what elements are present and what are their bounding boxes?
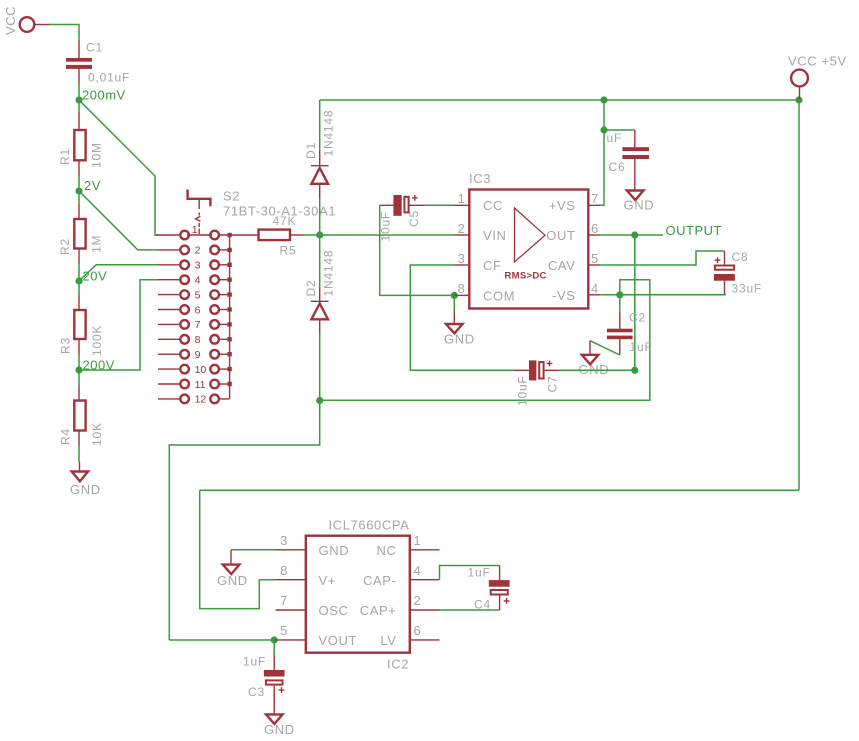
power symbol VCC +5V: [791, 70, 808, 99]
wire 2V net to switch pin 2: [79, 191, 158, 250]
svg-text:C8: C8: [732, 250, 749, 264]
svg-text:CAV: CAV: [548, 258, 576, 273]
svg-text:R1: R1: [58, 148, 72, 165]
label C2: [629, 310, 646, 324]
svg-text:VCC: VCC: [3, 6, 18, 35]
wire to C6: [604, 129, 635, 131]
wire: [319, 100, 321, 150]
pin 4 -VS: [552, 281, 600, 303]
svg-text:6: 6: [591, 221, 599, 236]
label 1M: [90, 235, 104, 253]
pin 3 CF: [455, 251, 502, 273]
label R5: [280, 244, 297, 258]
resistor R3: [74, 295, 85, 355]
svg-text:GND: GND: [579, 362, 610, 377]
wire -VS net: [600, 294, 726, 296]
rotary switch S2 pin row 6: [158, 304, 232, 316]
pin 1 CC: [455, 191, 503, 213]
wire R5 to VIN: [303, 234, 455, 236]
node 200V: [75, 358, 114, 374]
svg-text:OUT: OUT: [546, 228, 575, 243]
rotary switch S2 bus: [229, 235, 231, 399]
svg-text:C3: C3: [248, 685, 265, 699]
label IC2: [387, 657, 409, 672]
label VCC +5V: [788, 54, 847, 69]
IC U IC2 ICL7660CPA body: [306, 536, 410, 653]
svg-text:5: 5: [280, 623, 288, 638]
label R1: [58, 148, 72, 165]
wire VOUT junction to C3: [273, 640, 275, 655]
svg-text:1uF: 1uF: [630, 340, 653, 354]
svg-text:IC3: IC3: [469, 171, 491, 186]
diode D2: [311, 288, 329, 332]
wire: [78, 100, 80, 112]
ground: [579, 341, 610, 377]
wire 200mV net to switch pin 1: [79, 100, 158, 235]
pin 6 LV: [380, 623, 439, 648]
rotary switch S2 pin row 2: [158, 245, 232, 257]
capacitor C2: [607, 313, 633, 355]
node 20V: [75, 269, 107, 285]
wire: [78, 264, 80, 281]
node 2V: [75, 178, 101, 195]
svg-text:1N4148: 1N4148: [322, 250, 336, 297]
wire C7 to junction: [560, 369, 635, 371]
svg-text:C4: C4: [474, 598, 491, 612]
wire: [78, 355, 80, 370]
wire VOUT net: [169, 639, 274, 641]
wire VCC rail down: [798, 100, 800, 490]
ground: [264, 714, 295, 737]
label 1uF: [243, 655, 266, 669]
svg-text:2V: 2V: [84, 178, 101, 193]
svg-text:C2: C2: [629, 310, 646, 324]
svg-text:C7: C7: [546, 376, 560, 393]
svg-text:6: 6: [414, 623, 422, 638]
svg-text:20V: 20V: [83, 269, 108, 284]
svg-text:+VS: +VS: [549, 198, 576, 213]
wire OUTPUT junction down: [634, 235, 636, 370]
wire 20V net to switch pin 3: [79, 265, 158, 281]
label 47K: [273, 214, 297, 228]
pin 2 CAP+: [360, 593, 440, 618]
svg-text:ICL7660CPA: ICL7660CPA: [329, 518, 410, 533]
label R3: [59, 337, 73, 354]
node COM junction: [451, 292, 458, 299]
label IC3: [469, 171, 491, 186]
svg-text:10uF: 10uF: [515, 375, 529, 406]
svg-text:5: 5: [591, 251, 599, 266]
label 33uF: [732, 281, 763, 295]
capacitor C5: [380, 195, 426, 216]
svg-text:CC: CC: [483, 198, 503, 213]
ground: [217, 550, 248, 588]
pin 8 COM: [455, 281, 516, 303]
label 10uF: [515, 375, 529, 406]
diode D1: [311, 150, 329, 198]
pin 1 NC: [377, 533, 440, 558]
wire CAV net: [600, 251, 724, 265]
svg-text:7: 7: [195, 319, 201, 331]
svg-text:4: 4: [591, 281, 599, 296]
op-amp U IC3 RMS-DC converter body: [469, 190, 588, 309]
capacitor C7: [514, 360, 560, 380]
svg-text:200mV: 200mV: [82, 88, 126, 103]
svg-text:CAP-: CAP-: [363, 573, 396, 588]
wire -VS to VOUT routing: [169, 401, 319, 641]
capacitor C6: [622, 130, 649, 191]
label S2: [223, 189, 240, 204]
node 200mV: [75, 88, 125, 104]
svg-text:-VS: -VS: [552, 288, 575, 303]
wire top rail right: [604, 99, 799, 101]
svg-text:1: 1: [192, 224, 198, 236]
svg-text:C5: C5: [407, 210, 421, 227]
rotary switch S2 pin row 11: [158, 379, 232, 391]
capacitor C4: [489, 566, 510, 611]
svg-text:LV: LV: [380, 633, 396, 648]
svg-text:6: 6: [195, 304, 201, 316]
wire: [319, 332, 321, 401]
svg-text:0,01uF: 0,01uF: [88, 71, 130, 85]
wire CF net: [410, 265, 514, 370]
svg-text:NC: NC: [377, 543, 397, 558]
svg-text:8: 8: [458, 281, 466, 296]
rotary switch S2 arm: [188, 190, 211, 237]
wire: [319, 198, 321, 288]
svg-text:1N4148: 1N4148: [322, 110, 336, 157]
rotary switch S2 pin row 3: [158, 260, 232, 272]
label 10uF: [379, 211, 393, 242]
svg-text:3: 3: [280, 533, 288, 548]
wire: [600, 130, 604, 205]
svg-text:D1: D1: [304, 142, 318, 159]
label 1N4148: [322, 110, 336, 157]
svg-text:IC2: IC2: [387, 657, 409, 672]
svg-text:GND: GND: [319, 543, 350, 558]
label C5: [407, 210, 421, 227]
pin 4 CAP-: [363, 563, 439, 588]
svg-text:3: 3: [458, 251, 466, 266]
rotary switch S2 pin row 4: [158, 275, 232, 287]
rotary switch S2 pin row 1: [156, 231, 232, 240]
pin 5 VOUT: [274, 623, 357, 648]
svg-text:CAP+: CAP+: [360, 603, 397, 618]
resistor R5: [259, 230, 304, 241]
ground: [624, 191, 655, 213]
wire: [78, 177, 80, 191]
label C6: [609, 160, 626, 174]
svg-text:9: 9: [195, 349, 201, 361]
node VOUT junction: [271, 636, 278, 643]
rotary switch S2 pin row 5: [158, 289, 232, 301]
wire C5 to CC pin: [425, 204, 454, 206]
label R2: [58, 238, 72, 255]
wire CAP+ net: [440, 609, 500, 611]
rotary switch S2 pin row 9: [158, 349, 232, 361]
wire: [78, 370, 80, 385]
svg-text:OSC: OSC: [319, 603, 349, 618]
wire -VS loop to y400 rail: [320, 280, 650, 401]
svg-text:D2: D2: [304, 280, 318, 297]
node: [316, 397, 323, 404]
svg-text:33uF: 33uF: [732, 281, 763, 295]
wire COM net (C5 left to COM junction): [380, 205, 455, 295]
wire COM to ground: [453, 295, 455, 310]
wire pin3 to ground: [231, 549, 276, 551]
label C7: [546, 376, 560, 393]
wire switch pin1 to R5: [219, 234, 259, 236]
svg-text:R3: R3: [59, 337, 73, 354]
label 0,01uF: [88, 71, 130, 85]
capacitor C8: [714, 251, 735, 295]
svg-text:C1: C1: [86, 41, 103, 55]
svg-text:8: 8: [280, 563, 288, 578]
svg-text:OUTPUT: OUTPUT: [666, 223, 722, 238]
label VCC: [3, 6, 18, 35]
resistor R1: [74, 112, 85, 177]
capacitor C1: [66, 41, 92, 85]
node OUTPUT: [631, 231, 638, 238]
svg-text:4: 4: [195, 275, 201, 287]
svg-text:R5: R5: [280, 244, 297, 258]
svg-text:2: 2: [195, 245, 201, 257]
wire: [78, 191, 80, 204]
svg-text:GND: GND: [444, 332, 475, 347]
svg-text:C6: C6: [609, 160, 626, 174]
svg-text:1M: 1M: [90, 235, 104, 253]
svg-text:GND: GND: [624, 198, 655, 213]
svg-text:R4: R4: [59, 428, 73, 445]
capacitor C3: [264, 655, 285, 714]
wire: [78, 84, 80, 100]
svg-text:5: 5: [195, 289, 201, 301]
label ICL7660CPA: [329, 518, 410, 533]
svg-text:GND: GND: [70, 482, 101, 497]
pin 3 GND: [276, 533, 350, 558]
svg-text:7: 7: [591, 191, 599, 206]
rotary switch S2 pin row 10: [158, 364, 232, 376]
label R4: [59, 428, 73, 445]
label C3: [248, 685, 265, 699]
wire 200V net to switch pin 4: [79, 280, 158, 370]
svg-text:VCC +5V: VCC +5V: [788, 54, 847, 69]
node diode net junction: [316, 231, 323, 238]
label D2: [304, 280, 318, 297]
pin 7 OSC: [276, 593, 349, 618]
resistor R4: [74, 385, 85, 446]
svg-text:8: 8: [195, 334, 201, 346]
svg-text:CF: CF: [483, 258, 502, 273]
label C8: [732, 250, 749, 264]
wire CAP- net: [440, 566, 500, 580]
wire to C2: [619, 295, 621, 313]
svg-text:S2: S2: [223, 189, 240, 204]
svg-text:100K: 100K: [90, 325, 104, 356]
svg-text:47K: 47K: [273, 214, 297, 228]
label 10K: [90, 422, 104, 446]
svg-text:V+: V+: [319, 573, 336, 588]
label 100K: [90, 325, 104, 356]
wire OUT net: [600, 234, 663, 236]
svg-text:VOUT: VOUT: [319, 633, 358, 648]
wire V+ rail: [200, 489, 799, 491]
svg-text:10M: 10M: [90, 142, 104, 168]
label 10M: [90, 142, 104, 168]
node: [600, 126, 607, 133]
svg-text:1: 1: [458, 191, 466, 206]
svg-text:1uF: 1uF: [468, 566, 491, 580]
svg-text:2: 2: [458, 221, 466, 236]
wire C2 to ground: [590, 341, 620, 355]
ground: [444, 311, 475, 347]
wire: [78, 446, 80, 462]
svg-text:GND: GND: [264, 722, 295, 737]
node: [631, 367, 638, 374]
svg-text:11: 11: [195, 379, 206, 391]
pin 8 V+: [276, 563, 336, 588]
label C1: [86, 41, 103, 55]
svg-text:10K: 10K: [90, 422, 104, 446]
svg-text:3: 3: [195, 260, 201, 272]
svg-text:4: 4: [414, 563, 422, 578]
node: [795, 96, 802, 103]
node: [616, 291, 623, 298]
label C4: [474, 598, 491, 612]
wire +VS net: [603, 100, 605, 130]
svg-text:RMS>DC: RMS>DC: [505, 271, 547, 282]
svg-text:10: 10: [195, 364, 207, 376]
label OUTPUT: [666, 223, 722, 238]
svg-text:GND: GND: [217, 573, 248, 588]
label D1: [304, 142, 318, 159]
node: [600, 96, 607, 103]
svg-text:1uF: 1uF: [243, 655, 266, 669]
pin 5 CAV: [548, 251, 600, 273]
svg-text:12: 12: [195, 394, 207, 406]
label 1uF: [468, 566, 491, 580]
rotary switch S2 pin row 8: [158, 334, 232, 346]
svg-text:7: 7: [280, 593, 288, 608]
power symbol VCC: [20, 17, 50, 32]
wire: [49, 25, 79, 41]
ground: [70, 462, 101, 497]
wire V+ rail to IC2 pin 8: [200, 490, 276, 608]
pin 2 VIN: [455, 221, 507, 243]
resistor R2: [74, 204, 85, 264]
svg-text:VIN: VIN: [483, 228, 506, 243]
svg-text:2: 2: [414, 593, 422, 608]
label 1uF: [630, 340, 653, 354]
rotary switch S2 pin row 7: [158, 319, 232, 331]
label 71BT-30-A1-30A1: [223, 204, 336, 219]
rotary switch S2 pin row 12: [158, 394, 230, 406]
pin 7 +VS: [549, 191, 601, 213]
wire: [78, 281, 80, 295]
wire top rail: [320, 99, 604, 101]
pin 6 OUT: [546, 221, 600, 243]
svg-text:COM: COM: [483, 288, 515, 303]
svg-text:10uF: 10uF: [379, 211, 393, 242]
label 1N4148: [322, 250, 336, 297]
label uF: [607, 131, 623, 145]
svg-text:R2: R2: [58, 238, 72, 255]
svg-text:1: 1: [414, 533, 422, 548]
svg-text:uF: uF: [607, 131, 623, 145]
